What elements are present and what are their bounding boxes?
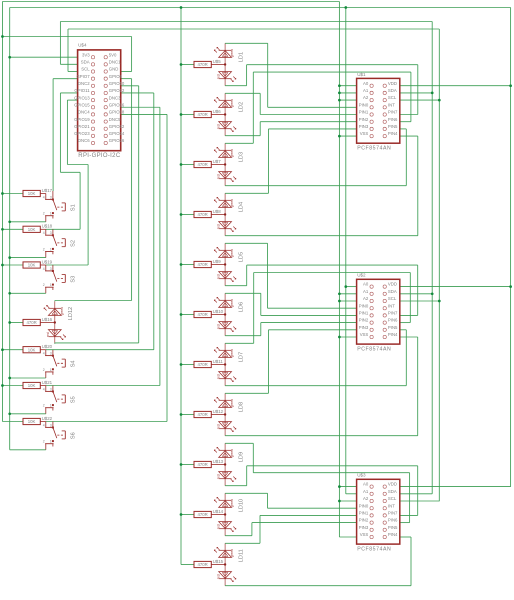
connector U$4 RPI-GPIO-I2C <box>74 43 125 160</box>
wire U$1 A2 <box>339 99 356 101</box>
svg-text:DNC3: DNC3 <box>109 95 121 100</box>
svg-text:DNC6: DNC6 <box>78 138 90 143</box>
LED LD7 (duo green/red) <box>214 343 244 385</box>
svg-text:DNC2: DNC2 <box>78 81 90 86</box>
wire to U$1 PIN6 <box>400 121 411 123</box>
junction trunk R6 <box>180 313 183 316</box>
wire GPIO18 pin <box>121 113 167 115</box>
wire LD6 red riser <box>260 323 262 336</box>
svg-text:3: 3 <box>50 231 52 235</box>
svg-text:green: green <box>230 149 234 157</box>
LED LD6 (duo green/red) <box>214 293 244 335</box>
svg-text:green: green <box>230 249 234 257</box>
wire trunk to R3 <box>181 164 194 166</box>
svg-text:2: 2 <box>43 212 45 216</box>
wire to U$2 PIN0 <box>268 307 357 309</box>
svg-text:SCL: SCL <box>81 67 90 72</box>
svg-text:10K: 10K <box>28 263 36 268</box>
LED LD4 (duo green/red) <box>214 193 244 235</box>
wire GPIO11 jog <box>60 171 80 173</box>
wire GND drop <box>131 37 133 72</box>
wire GND to U$19 <box>2 264 23 266</box>
svg-text:470R: 470R <box>197 212 207 217</box>
svg-text:470R: 470R <box>197 562 207 567</box>
pin S1.3 <box>52 191 54 194</box>
svg-text:3: 3 <box>50 387 52 391</box>
net GND top rail <box>2 1 339 3</box>
wire GPIO16 pin <box>121 106 160 108</box>
svg-text:U$20: U$20 <box>42 344 53 349</box>
junction VDD <box>509 84 512 87</box>
svg-text:LD6: LD6 <box>238 302 244 312</box>
junction GND <box>338 92 341 95</box>
svg-text:U$2: U$2 <box>357 273 366 278</box>
svg-text:GPIO11: GPIO11 <box>74 88 90 93</box>
svg-text:U$15: U$15 <box>213 559 224 564</box>
wire LD7 green <box>225 342 254 344</box>
wire SCL vertical <box>438 29 440 501</box>
svg-text:2: 2 <box>43 404 45 408</box>
wire SDA <box>400 293 432 295</box>
svg-text:PIN5: PIN5 <box>388 325 398 330</box>
wire VDD <box>400 286 511 288</box>
switch S6 <box>43 422 77 450</box>
svg-text:U$7: U$7 <box>213 159 222 164</box>
svg-text:470R: 470R <box>197 412 207 417</box>
wire LED supply trunk <box>180 8 182 565</box>
svg-text:470R: 470R <box>197 462 207 467</box>
wire LD3 green riser <box>252 72 254 143</box>
wire GND left trunk <box>1 2 3 422</box>
svg-text:red: red <box>217 74 221 79</box>
svg-text:RPI-GPIO-I2C: RPI-GPIO-I2C <box>78 153 121 159</box>
wire U$1 VSS <box>339 135 356 137</box>
svg-text:4: 4 <box>43 195 45 199</box>
svg-text:VSS: VSS <box>360 332 369 337</box>
wire GND to U$18 <box>2 228 23 230</box>
wire U$22 to S6 <box>40 421 46 423</box>
svg-text:LD2: LD2 <box>238 102 244 112</box>
wire U$3 A2 <box>339 500 356 502</box>
svg-text:U$5: U$5 <box>213 59 222 64</box>
wire to U$3 PIN0 <box>268 507 357 509</box>
wire S2 signal <box>46 228 80 230</box>
wire U$19 to S3 <box>40 264 46 266</box>
wire LD1 green <box>225 42 268 44</box>
wire GPIO13 jog <box>67 164 88 166</box>
svg-text:U$14: U$14 <box>213 509 224 514</box>
resistor U$9 (470R) <box>194 259 221 268</box>
wire VDD <box>400 486 511 488</box>
svg-text:red: red <box>46 332 50 337</box>
svg-text:A2: A2 <box>363 95 369 100</box>
resistor U$16 (470R) <box>23 317 53 326</box>
svg-text:LD7: LD7 <box>238 352 244 362</box>
LED LD1 (duo green/red) <box>214 43 244 85</box>
wire to U$2 PIN7 <box>400 314 418 316</box>
svg-text:U$3: U$3 <box>357 473 366 478</box>
junction trunk R9 <box>180 463 183 466</box>
LED LD10 (duo green/red) <box>214 493 244 535</box>
svg-text:INT: INT <box>388 102 395 107</box>
svg-text:PIN1: PIN1 <box>359 311 369 316</box>
svg-text:U$17: U$17 <box>42 188 53 193</box>
wire to U$1 PIN1 <box>260 114 356 116</box>
wire LD9 green <box>225 442 253 444</box>
wire to U$1 PIN7 <box>400 114 418 116</box>
wire LD12 green to GPIO8 <box>55 300 132 302</box>
svg-text:A1: A1 <box>363 489 369 494</box>
wire U$2 A1 <box>339 293 356 295</box>
svg-text:green: green <box>230 99 234 107</box>
svg-text:green: green <box>230 299 234 307</box>
svg-text:1: 1 <box>50 404 52 408</box>
wire resistor U$6 to LED node <box>211 114 225 116</box>
wire LD7 red riser <box>405 330 407 386</box>
svg-text:LD11: LD11 <box>238 549 244 562</box>
svg-text:green: green <box>60 307 64 315</box>
svg-text:PIN5: PIN5 <box>388 525 398 530</box>
junction trunk R3 <box>180 163 183 166</box>
wire S4 signal <box>46 349 154 351</box>
wire U$21 to S5 <box>40 385 46 387</box>
svg-text:GPIO8: GPIO8 <box>109 74 123 79</box>
svg-text:U$12: U$12 <box>213 409 224 414</box>
wire LD1 red <box>225 85 247 87</box>
resistor U$13 (470R) <box>194 459 224 468</box>
junction <box>1 192 4 195</box>
wire LD5 green <box>225 242 267 244</box>
wire S2 to 3V3 <box>10 257 46 259</box>
svg-text:3: 3 <box>50 267 52 271</box>
svg-text:3: 3 <box>50 195 52 199</box>
wire to U$2 PIN5 <box>400 329 407 331</box>
junction 3V3 <box>8 321 11 324</box>
wire GPIO12 pin <box>121 92 154 94</box>
svg-text:10K: 10K <box>28 227 36 232</box>
wire to U$1 PIN5 <box>400 128 407 130</box>
wire resistor U$12 to LED node <box>211 414 225 416</box>
svg-text:1: 1 <box>50 283 52 287</box>
junction GND <box>338 292 341 295</box>
svg-text:1: 1 <box>50 440 52 444</box>
wire S3 signal <box>46 264 88 266</box>
wire LD1 red riser <box>246 65 248 86</box>
switch S2 <box>43 229 77 257</box>
wire LD3 green <box>225 142 253 144</box>
resistor U$5 (470R) <box>194 59 221 68</box>
wire LD4 green <box>225 192 268 194</box>
svg-text:A0: A0 <box>363 81 369 86</box>
svg-text:10K: 10K <box>28 347 36 352</box>
wire S1 to 3V3 <box>10 221 46 223</box>
resistor U$7 (470R) <box>194 159 221 168</box>
svg-text:PCF8574AN: PCF8574AN <box>357 145 391 151</box>
wire U$1 A0 <box>339 85 356 87</box>
wire LD4 red riser <box>417 136 419 236</box>
svg-text:GPIO23: GPIO23 <box>74 131 90 136</box>
op-amp/IC U$1 PCF8574AN <box>357 72 400 152</box>
svg-text:PIN4: PIN4 <box>388 332 398 337</box>
svg-text:VDD: VDD <box>388 282 397 287</box>
svg-text:red: red <box>217 374 221 379</box>
junction trunk R7 <box>180 363 183 366</box>
svg-text:PIN2: PIN2 <box>359 117 369 122</box>
svg-text:PIN1: PIN1 <box>359 110 369 115</box>
svg-text:PIN0: PIN0 <box>359 503 369 508</box>
resistor U$22 (10K) <box>23 416 53 425</box>
resistor U$19 (10K) <box>23 259 53 268</box>
junction <box>1 384 4 387</box>
wire GND to U$22 <box>2 421 23 423</box>
wire to U$3 PIN7 <box>400 514 418 516</box>
svg-text:U$4: U$4 <box>78 43 87 48</box>
svg-text:red: red <box>217 524 221 529</box>
wire LD7 red <box>225 385 406 387</box>
wire GPIO10 to LD12 red <box>138 86 140 343</box>
svg-text:1: 1 <box>50 212 52 216</box>
resistor U$17 (10K) <box>23 188 53 197</box>
junction trunk R8 <box>180 413 183 416</box>
junction trunk R10 <box>180 513 183 516</box>
svg-text:GPIO10: GPIO10 <box>109 81 125 86</box>
junction 3V3 <box>344 285 347 288</box>
wire GND to U$17 <box>2 193 23 195</box>
junction 3V3 right <box>344 6 347 9</box>
resistor U$20 (10K) <box>23 344 53 353</box>
svg-text:SDA: SDA <box>81 60 90 65</box>
junction 3V3 header <box>8 56 11 59</box>
svg-text:red: red <box>217 124 221 129</box>
junction GND <box>338 336 341 339</box>
wire to U$2 PIN1 <box>261 314 357 316</box>
wire SDA <box>400 92 432 94</box>
svg-text:LD9: LD9 <box>238 452 244 462</box>
wire trunk to R9 <box>181 464 194 466</box>
junction GND <box>338 500 341 503</box>
wire U$18 to S2 <box>40 228 46 230</box>
wire U$16 to LD12 <box>40 322 55 324</box>
svg-text:U$13: U$13 <box>213 459 224 464</box>
wire LD3 red riser <box>405 129 407 186</box>
svg-text:GPIO19: GPIO19 <box>74 117 90 122</box>
wire GND right trunk <box>338 2 340 538</box>
wire LD9 green detour <box>253 472 409 474</box>
svg-text:PIN3: PIN3 <box>359 525 369 530</box>
svg-text:GPIO22: GPIO22 <box>109 124 125 129</box>
wire LD4 green riser <box>268 129 270 193</box>
svg-text:PIN2: PIN2 <box>359 518 369 523</box>
wire to U$1 PIN2 <box>260 121 356 123</box>
svg-text:DNC4: DNC4 <box>78 110 90 115</box>
wire LD2 red <box>225 135 260 137</box>
svg-text:10K: 10K <box>28 383 36 388</box>
wire LD8 green riser <box>268 330 270 394</box>
svg-text:GPIO7: GPIO7 <box>76 74 90 79</box>
wire U$3 A1 <box>346 493 357 495</box>
wire LD5 red drop <box>417 265 419 315</box>
svg-text:GPIO21: GPIO21 <box>74 124 90 129</box>
svg-text:SCL: SCL <box>388 296 397 301</box>
svg-text:red: red <box>217 324 221 329</box>
wire S4 to 3V3 <box>10 377 46 379</box>
switch S1 <box>43 194 77 222</box>
svg-text:LD5: LD5 <box>238 252 244 262</box>
junction <box>1 348 4 351</box>
svg-text:GPIO18: GPIO18 <box>109 110 125 115</box>
wire GPIO13 pin <box>67 99 77 101</box>
wire LD11 green riser <box>259 515 261 543</box>
svg-text:PCF8574AN: PCF8574AN <box>357 546 391 552</box>
node LD6 anode <box>224 313 226 315</box>
svg-text:S6: S6 <box>70 432 76 439</box>
svg-text:S5: S5 <box>70 396 76 403</box>
wire trunk to R2 <box>181 114 194 116</box>
svg-text:1: 1 <box>50 368 52 372</box>
node LD3 anode <box>224 163 226 165</box>
svg-text:LD1: LD1 <box>238 52 244 62</box>
svg-text:4: 4 <box>43 231 45 235</box>
svg-text:GPIO15: GPIO15 <box>74 102 90 107</box>
wire LD2 green <box>225 92 260 94</box>
wire U$2 A0 <box>346 286 357 288</box>
svg-text:SDA: SDA <box>388 289 397 294</box>
svg-text:GPIO26: GPIO26 <box>109 138 125 143</box>
svg-text:green: green <box>230 549 234 557</box>
switch S4 <box>43 350 77 378</box>
svg-text:VSS: VSS <box>360 131 369 136</box>
svg-text:green: green <box>230 399 234 407</box>
svg-text:10K: 10K <box>28 419 36 424</box>
wire GPIO8 to LD12 green <box>131 79 133 301</box>
svg-text:S4: S4 <box>70 360 76 367</box>
svg-text:4: 4 <box>43 387 45 391</box>
svg-text:green: green <box>230 49 234 57</box>
svg-text:U$16: U$16 <box>42 317 53 322</box>
wire to U$3 PIN2 <box>252 522 357 524</box>
wire U$2 VSS <box>339 336 356 338</box>
svg-text:U$22: U$22 <box>42 416 53 421</box>
wire GND to U$20 <box>2 349 23 351</box>
wire LD7 green riser <box>253 273 255 344</box>
junction GND <box>338 485 341 488</box>
wire GPIO11 pin <box>60 92 77 94</box>
wire 3V3 pin <box>10 56 78 58</box>
svg-text:VSS: VSS <box>360 532 369 537</box>
net 3V3 top rail <box>10 7 511 9</box>
wire GPIO8 pin <box>121 78 132 80</box>
wire GPIO11 to S2 <box>79 172 81 229</box>
svg-text:PIN7: PIN7 <box>388 511 398 516</box>
wire LD5 green drop <box>267 243 269 308</box>
wire SDA riser <box>59 22 61 65</box>
node LD1 anode <box>224 63 226 65</box>
wire resistor U$7 to LED node <box>211 164 225 166</box>
svg-text:470R: 470R <box>26 320 36 325</box>
LED LD3 (duo green/red) <box>214 143 244 185</box>
junction GND <box>1 35 4 38</box>
svg-text:U$21: U$21 <box>42 380 53 385</box>
wire resistor U$5 to LED node <box>211 64 225 66</box>
svg-text:PIN6: PIN6 <box>388 117 398 122</box>
wire LD9 red drop <box>417 466 419 516</box>
op-amp/IC U$3 PCF8574AN <box>357 473 400 553</box>
wire GPIO13 to S3 <box>87 165 89 266</box>
switch S5 <box>43 386 77 414</box>
wire 3V3 left trunk <box>9 8 11 450</box>
svg-text:red: red <box>217 574 221 579</box>
svg-text:PIN7: PIN7 <box>388 110 398 115</box>
svg-text:4: 4 <box>43 352 45 356</box>
wire S6 to 3V3 <box>10 449 46 451</box>
switch S3 <box>43 265 77 293</box>
wire to U$1 PIN0 <box>268 106 357 108</box>
svg-text:PIN6: PIN6 <box>388 518 398 523</box>
svg-text:2: 2 <box>43 368 45 372</box>
junction trunk R4 <box>180 213 183 216</box>
wire LD10 green <box>225 492 267 494</box>
svg-text:green: green <box>230 499 234 507</box>
svg-text:470R: 470R <box>197 62 207 67</box>
wire SDA <box>400 493 432 495</box>
junction 3V3 <box>8 220 11 223</box>
wire U$2 A2 <box>339 300 356 302</box>
wire LD1 green drop <box>267 43 269 107</box>
wire LD8 red riser <box>417 337 419 436</box>
wire LD9 red detour <box>247 465 418 467</box>
junction 3V3 <box>8 377 11 380</box>
svg-text:red: red <box>217 174 221 179</box>
wire U$3 A0 <box>339 486 356 488</box>
junction trunk R5 <box>180 263 183 266</box>
wire S3 to 3V3 <box>10 292 46 294</box>
wire LD6 green drop <box>260 293 262 315</box>
wire U$3 VSS <box>339 536 356 538</box>
wire 3V3 to U$16 <box>10 322 23 324</box>
svg-text:VDD: VDD <box>388 81 397 86</box>
wire GND to U$21 <box>2 385 23 387</box>
wire SDA pin <box>60 63 77 65</box>
resistor U$15 (470R) <box>194 559 224 568</box>
svg-text:A2: A2 <box>363 296 369 301</box>
wire LD11 green <box>225 542 260 544</box>
wire LD6 red <box>225 335 261 337</box>
wire LD1 red detour <box>247 64 418 66</box>
wire LD9 red riser <box>246 466 248 486</box>
svg-text:S1: S1 <box>70 204 76 211</box>
svg-text:U$18: U$18 <box>42 224 53 229</box>
wire LD6 green <box>225 292 261 294</box>
wire S5 signal <box>46 385 160 387</box>
wire SCL <box>400 300 440 302</box>
resistor U$21 (10K) <box>23 380 53 389</box>
svg-text:470R: 470R <box>197 162 207 167</box>
svg-text:A2: A2 <box>363 496 369 501</box>
wire LD2 green drop <box>259 93 261 114</box>
junction 3V3 <box>8 412 11 415</box>
wire trunk to R1 <box>181 64 194 66</box>
wire LD5 red detour <box>247 264 418 266</box>
wire SCL <box>400 500 440 502</box>
wire LD10 green drop <box>267 493 269 508</box>
wire VDD <box>400 85 511 87</box>
node LD5 anode <box>224 263 226 265</box>
wire resistor U$15 to LED node <box>211 564 225 566</box>
svg-text:PIN3: PIN3 <box>359 124 369 129</box>
wire to U$2 PIN4 <box>400 336 418 338</box>
svg-text:PIN6: PIN6 <box>388 318 398 323</box>
svg-text:GND: GND <box>109 67 119 72</box>
